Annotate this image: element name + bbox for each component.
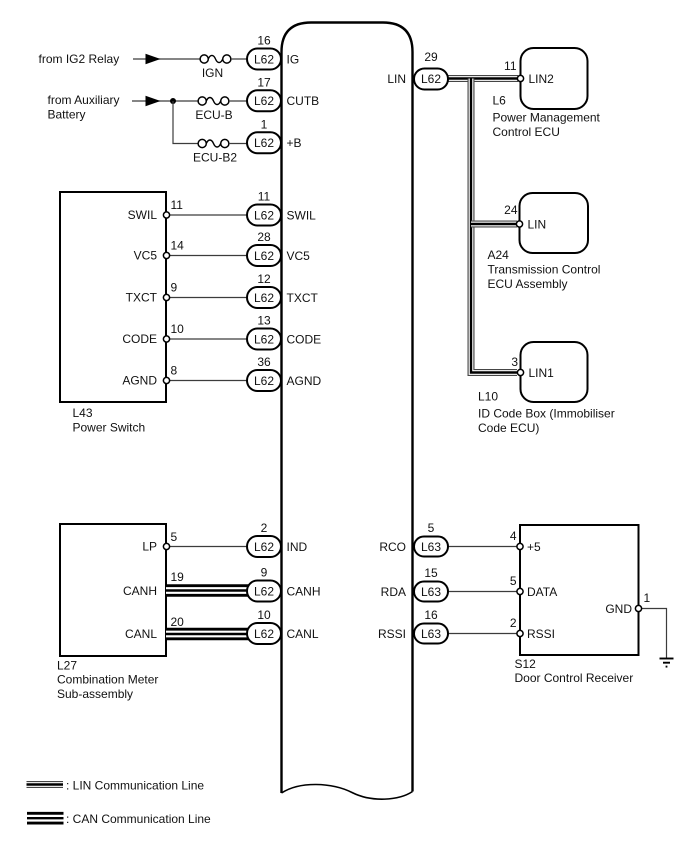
- svg-text:1: 1: [261, 117, 268, 131]
- svg-text:CANL: CANL: [125, 627, 157, 641]
- wire power switch SWIL pin 11 to connector: [166, 214, 250, 216]
- door control receiver S12 (box): [515, 525, 639, 685]
- svg-text:8: 8: [171, 364, 178, 378]
- svg-text:ECU-B2: ECU-B2: [193, 151, 237, 165]
- svg-text:L62: L62: [254, 332, 274, 346]
- connector L62 pin 29 (LIN): [387, 50, 448, 90]
- svg-text:4: 4: [510, 529, 517, 543]
- svg-text:20: 20: [171, 615, 185, 629]
- transmission control ECU assembly A24 (box): [488, 193, 601, 291]
- svg-text:GND: GND: [605, 602, 632, 616]
- svg-text:L63: L63: [421, 585, 441, 599]
- svg-text:10: 10: [171, 322, 185, 336]
- svg-text:1: 1: [644, 591, 651, 605]
- legend label: CAN Communication Line: [66, 812, 211, 826]
- wire CAN communication line CANL (meter pin 20 to connector): [166, 628, 250, 641]
- svg-text:5: 5: [171, 530, 178, 544]
- ID code box (immobiliser code ECU) L10 (box): [478, 342, 615, 435]
- arrow (power feed direction, IG2 Relay): [146, 54, 161, 65]
- svg-text:L63: L63: [421, 627, 441, 641]
- connector L62 pin 12 (TXCT): [247, 272, 319, 308]
- connector L62 pin 13 (CODE): [247, 314, 321, 350]
- svg-text:LIN2: LIN2: [529, 72, 555, 86]
- wire CAN communication line CANH (meter pin 19 to connector): [166, 584, 250, 597]
- svg-text:19: 19: [171, 570, 185, 584]
- svg-text:L62: L62: [254, 584, 274, 598]
- svg-text:36: 36: [257, 355, 271, 369]
- combination meter sub-assembly L27 (box): [57, 524, 166, 701]
- svg-text:ECU Assembly: ECU Assembly: [488, 277, 568, 291]
- wire power switch CODE pin 10 to connector: [166, 338, 250, 340]
- svg-text:AGND: AGND: [287, 374, 322, 388]
- svg-text:CODE: CODE: [287, 332, 322, 346]
- pin 14 (VC5) on power switch: [134, 239, 185, 263]
- wire fuse ECU-B2 to connector L62 pin 1: [229, 143, 250, 145]
- pin 11 (SWIL) on power switch: [128, 198, 184, 222]
- power management control ECU L6 (box): [493, 48, 601, 139]
- svg-text:IG: IG: [287, 52, 300, 66]
- connector L62 pin 2 (IND): [247, 521, 308, 557]
- pin 20 (CANL) on combination meter: [125, 615, 184, 641]
- svg-text:L62: L62: [254, 136, 274, 150]
- svg-text:5: 5: [428, 521, 435, 535]
- svg-text:Door Control Receiver: Door Control Receiver: [515, 671, 634, 685]
- svg-text:IND: IND: [287, 540, 308, 554]
- wire combination meter LP pin 5 to connector IND: [166, 546, 250, 548]
- svg-text:28: 28: [257, 230, 271, 244]
- wire power switch AGND pin 8 to connector: [166, 380, 250, 382]
- pin 3 (LIN1) on ID code box: [511, 355, 554, 380]
- svg-text:24: 24: [504, 203, 518, 217]
- svg-text:SWIL: SWIL: [128, 208, 158, 222]
- svg-text:5: 5: [510, 574, 517, 588]
- svg-text:LP: LP: [142, 540, 157, 554]
- svg-text:from IG2 Relay: from IG2 Relay: [39, 52, 120, 66]
- wire connector RCO to door control receiver +5: [448, 546, 518, 548]
- svg-text:Transmission Control: Transmission Control: [488, 263, 601, 277]
- label: from Auxiliary Battery: [48, 93, 120, 122]
- svg-text:VC5: VC5: [134, 249, 158, 263]
- svg-text:: CAN Communication Line: : CAN Communication Line: [66, 812, 211, 826]
- legend: LIN communication line sample: [27, 781, 64, 788]
- svg-text:TXCT: TXCT: [287, 291, 319, 305]
- svg-text:16: 16: [424, 608, 438, 622]
- wire connector RSSI to door control receiver RSSI: [448, 633, 518, 635]
- connector L62 pin 16 (IG): [247, 34, 299, 70]
- svg-text:CANH: CANH: [287, 584, 321, 598]
- connector L63 pin 16 (RSSI): [378, 608, 448, 644]
- svg-text:L62: L62: [254, 627, 274, 641]
- wire from Auxiliary Battery to fuse ECU-B: [132, 100, 198, 102]
- svg-text:L62: L62: [254, 52, 274, 66]
- svg-text:RSSI: RSSI: [527, 627, 555, 641]
- wire junction down to fuse ECU-B2 branch: [173, 101, 198, 144]
- legend label: LIN Communication Line: [66, 779, 204, 793]
- svg-text:L62: L62: [254, 291, 274, 305]
- svg-text:CODE: CODE: [122, 332, 157, 346]
- svg-text:15: 15: [424, 566, 438, 580]
- svg-text:from Auxiliary: from Auxiliary: [48, 93, 120, 107]
- svg-text:: LIN Communication Line: : LIN Communication Line: [66, 779, 204, 793]
- wire from IG2 Relay to fuse IGN: [133, 58, 200, 60]
- connector L62 pin 11 (SWIL): [247, 190, 316, 226]
- svg-text:L10: L10: [478, 390, 498, 404]
- svg-text:S12: S12: [515, 657, 537, 671]
- svg-text:LIN: LIN: [387, 72, 406, 86]
- svg-text:ECU-B: ECU-B: [195, 108, 232, 122]
- fuse IGN: [200, 55, 231, 80]
- svg-text:RDA: RDA: [381, 585, 406, 599]
- svg-text:IGN: IGN: [202, 66, 223, 80]
- arrow (power feed direction, Auxiliary Battery): [146, 96, 161, 107]
- svg-text:2: 2: [261, 521, 268, 535]
- connector L62 pin 10 (CANL): [247, 608, 319, 644]
- svg-text:L63: L63: [421, 540, 441, 554]
- svg-text:SWIL: SWIL: [287, 208, 317, 222]
- svg-text:Code ECU): Code ECU): [478, 421, 539, 435]
- svg-text:VC5: VC5: [287, 249, 311, 263]
- connector L62 pin 9 (CANH): [247, 566, 321, 602]
- svg-text:LIN1: LIN1: [529, 366, 555, 380]
- svg-text:+B: +B: [287, 136, 302, 150]
- wire LIN communication line branch to A24 LIN: [471, 221, 517, 228]
- svg-text:17: 17: [257, 75, 271, 89]
- pin 11 (LIN2) on power management control ECU: [504, 59, 554, 86]
- connector L63 pin 5 (RCO): [379, 521, 448, 557]
- svg-text:29: 29: [424, 50, 438, 64]
- svg-text:11: 11: [258, 190, 271, 204]
- wire fuse ECU-B to connector L62 pin 17: [229, 100, 250, 102]
- svg-text:11: 11: [504, 59, 517, 73]
- pin 10 (CODE) on power switch: [122, 322, 184, 346]
- svg-text:RSSI: RSSI: [378, 627, 406, 641]
- svg-text:13: 13: [257, 314, 271, 328]
- svg-text:L43: L43: [73, 406, 93, 420]
- wire fuse IGN to connector L62 pin 16: [231, 58, 250, 60]
- connector L62 pin 28 (VC5): [247, 230, 310, 266]
- svg-text:9: 9: [171, 281, 178, 295]
- svg-text:CANL: CANL: [287, 627, 319, 641]
- svg-text:L62: L62: [254, 208, 274, 222]
- svg-text:L62: L62: [254, 374, 274, 388]
- svg-text:9: 9: [261, 566, 268, 580]
- svg-text:2: 2: [510, 616, 517, 630]
- connector L62 pin 17 (CUTB): [247, 75, 319, 111]
- wire GND pin 1 to ground: [639, 609, 667, 659]
- svg-text:LIN: LIN: [528, 218, 547, 232]
- svg-text:CANH: CANH: [123, 584, 157, 598]
- wire power switch TXCT pin 9 to connector: [166, 297, 250, 299]
- pin 24 (LIN) on transmission control ECU: [504, 203, 546, 232]
- pin 5 (LP) on combination meter: [142, 530, 177, 554]
- ground (earth symbol): [660, 659, 674, 667]
- connector L62 pin 1 (+B): [247, 117, 302, 153]
- svg-text:TXCT: TXCT: [126, 291, 158, 305]
- svg-text:Power Management: Power Management: [493, 111, 601, 125]
- svg-text:AGND: AGND: [122, 374, 157, 388]
- wire connector RDA to door control receiver DATA: [448, 591, 518, 593]
- svg-text:12: 12: [257, 272, 271, 286]
- legend: CAN communication line sample: [27, 812, 64, 825]
- wire LIN communication line (L62 pin 29 to LIN2 / branch): [448, 75, 518, 82]
- wire LIN communication line vertical trunk with elbow to LIN1: [471, 79, 517, 373]
- label: from IG2 Relay: [39, 52, 120, 66]
- svg-text:3: 3: [511, 355, 518, 369]
- svg-text:Power Switch: Power Switch: [73, 421, 146, 435]
- svg-text:L62: L62: [254, 249, 274, 263]
- fuse ECU-B2: [193, 139, 237, 164]
- svg-text:11: 11: [171, 198, 184, 212]
- connector L63 pin 15 (RDA): [381, 566, 448, 602]
- pin 1 (GND) on door control receiver: [605, 591, 650, 616]
- svg-text:16: 16: [257, 34, 271, 48]
- pin 2 (RSSI) on door control receiver: [510, 616, 555, 641]
- svg-text:L27: L27: [57, 659, 77, 673]
- svg-text:Control ECU: Control ECU: [493, 125, 560, 139]
- connector shield L62/L63 (central ECU connector outline with break wave): [282, 23, 413, 800]
- svg-text:L62: L62: [421, 72, 441, 86]
- wire power switch VC5 pin 14 to connector: [166, 255, 250, 257]
- pin 5 (DATA) on door control receiver: [510, 574, 557, 599]
- svg-text:ID Code Box (Immobiliser: ID Code Box (Immobiliser: [478, 407, 615, 421]
- power switch L43 (box): [60, 192, 166, 435]
- svg-text:14: 14: [171, 239, 185, 253]
- pin 19 (CANH) on combination meter: [123, 570, 184, 598]
- svg-text:L62: L62: [254, 94, 274, 108]
- svg-text:+5: +5: [527, 540, 541, 554]
- fuse ECU-B: [195, 97, 232, 122]
- svg-text:DATA: DATA: [527, 585, 557, 599]
- connector L62 pin 36 (AGND): [247, 355, 322, 391]
- pin 4 (+5) on door control receiver: [510, 529, 541, 554]
- svg-text:A24: A24: [488, 248, 510, 262]
- svg-text:L6: L6: [493, 94, 507, 108]
- svg-text:Combination Meter: Combination Meter: [57, 673, 158, 687]
- svg-text:Sub-assembly: Sub-assembly: [57, 687, 133, 701]
- junction node (battery feed split): [170, 98, 176, 104]
- svg-text:10: 10: [257, 608, 271, 622]
- svg-text:Battery: Battery: [48, 108, 86, 122]
- pin 8 (AGND) on power switch: [122, 364, 177, 388]
- pin 9 (TXCT) on power switch: [126, 281, 178, 305]
- svg-text:CUTB: CUTB: [287, 94, 320, 108]
- svg-text:L62: L62: [254, 540, 274, 554]
- svg-text:RCO: RCO: [379, 540, 406, 554]
